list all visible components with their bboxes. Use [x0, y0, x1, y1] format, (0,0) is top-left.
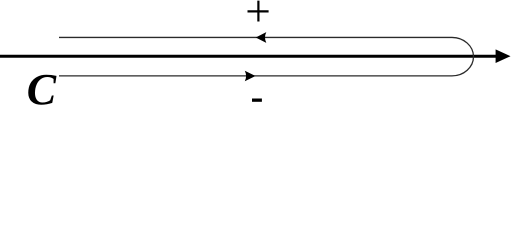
label - (lower side): [252, 99, 262, 102]
arrowhead on bottom segment (rightward): [245, 71, 256, 82]
svg-text:C: C: [27, 65, 57, 111]
axis arrowhead: [496, 49, 511, 63]
arrowhead on top segment (leftward): [256, 32, 267, 43]
label + (upper side): [248, 1, 269, 22]
wire: contour C (top segment, right U-turn cap, bottom segment): [59, 37, 473, 75]
wire: real axis line: [0, 55, 497, 58]
